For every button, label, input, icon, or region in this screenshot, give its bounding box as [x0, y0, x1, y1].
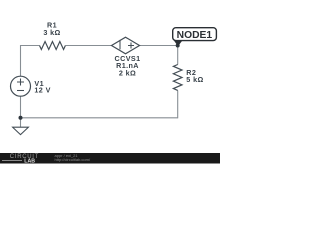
- svg-text:http://circuitlab.com/: http://circuitlab.com/: [55, 157, 91, 162]
- svg-text:12 V: 12 V: [34, 85, 50, 94]
- svg-text:2 kΩ: 2 kΩ: [119, 69, 136, 78]
- svg-text:5 kΩ: 5 kΩ: [186, 75, 203, 84]
- svg-text:LAB: LAB: [24, 159, 35, 165]
- svg-text:NODE1: NODE1: [177, 30, 213, 41]
- svg-text:3 kΩ: 3 kΩ: [43, 28, 60, 37]
